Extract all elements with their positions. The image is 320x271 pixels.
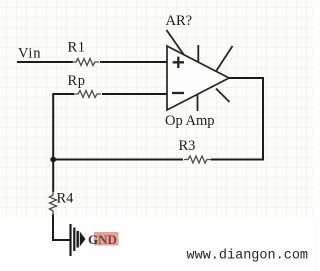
svg-text:GND: GND (88, 232, 117, 247)
bottom power pin (197, 94, 199, 111)
wire feedback node up to Rp (53, 94, 74, 160)
resistor R1 (72, 59, 99, 66)
svg-text:Op Amp: Op Amp (165, 113, 215, 129)
svg-text:Rp: Rp (68, 73, 86, 89)
plus sign (noninverting input) (173, 57, 184, 68)
wire output down to feedback row (262, 77, 264, 161)
op-amp AR? (167, 30, 233, 111)
svg-text:R1: R1 (68, 40, 86, 56)
wire node down to R4 (52, 157, 54, 192)
minus sign (inverting input) (172, 92, 184, 94)
svg-text:www.diangon.com: www.diangon.com (187, 249, 309, 264)
upper-right offset pin (216, 46, 233, 71)
wire R1 to op-amp noninverting input (100, 61, 167, 63)
svg-text:R3: R3 (179, 138, 196, 154)
svg-text:R4: R4 (57, 190, 75, 206)
wire R4 to ground (53, 215, 70, 241)
svg-text:Vin: Vin (18, 46, 41, 62)
resistor R3 (184, 156, 211, 163)
svg-text:AR?: AR? (166, 13, 193, 29)
wire op-amp output (229, 77, 264, 79)
lower-right offset pin (216, 89, 230, 103)
upper-left offset pin (to AR? label) (167, 30, 185, 55)
resistor Rp (74, 91, 101, 98)
ground (71, 224, 86, 256)
top power pin (197, 45, 199, 63)
wire Rp to op-amp inverting input (102, 93, 167, 95)
wire Vin to R1 (17, 61, 73, 63)
junction node (feedback / Rp / R4) (50, 157, 56, 163)
op-amp triangle body (167, 46, 229, 110)
wire feedback left segment (52, 159, 183, 161)
wire feedback right segment (211, 159, 264, 161)
resistor R4 (50, 191, 57, 215)
label GND watermark (88, 232, 119, 247)
